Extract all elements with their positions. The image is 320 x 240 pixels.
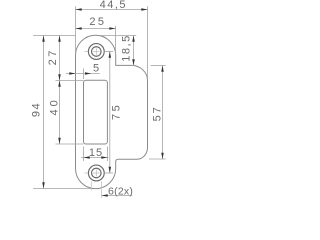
bottom hole centerline dash left <box>84 172 88 174</box>
svg-text:75: 75 <box>110 103 122 120</box>
centerlines <box>84 48 99 176</box>
bottom hole cross vertical <box>95 170 97 177</box>
ext line right of 25 <box>115 26 117 55</box>
arrows 75 <box>109 52 112 58</box>
dim line 27 and 40 shared <box>59 36 61 145</box>
bottom hole cross horizontal <box>93 172 100 174</box>
svg-text:40: 40 <box>49 97 61 115</box>
arrows 94 <box>42 36 45 42</box>
svg-text:94: 94 <box>30 102 42 117</box>
arrows 15 <box>84 156 90 159</box>
dim line 57 <box>162 66 164 160</box>
arrows 40 <box>58 81 61 87</box>
ext line 57 bottom <box>149 158 166 160</box>
top hole centerline dash left <box>84 51 88 53</box>
arrows 27 <box>58 36 61 42</box>
top hole countersink <box>88 44 104 60</box>
dim line 15 <box>81 157 109 159</box>
dim line 5 with tails <box>66 73 100 75</box>
leader 6(2x) underline <box>102 195 133 197</box>
dim line 18,5 <box>133 36 135 66</box>
plate outline <box>76 35 148 188</box>
ext line 18,5 bottom (step extended) <box>131 65 136 67</box>
svg-text:25: 25 <box>89 16 106 28</box>
bottom hole <box>92 168 102 178</box>
svg-text:5: 5 <box>93 62 99 74</box>
dim line 25 <box>76 28 116 30</box>
ext line top-left <box>33 35 76 37</box>
ext line hole left edge for 6(2x) <box>90 182 92 191</box>
ext stub 75 bottom <box>104 172 113 174</box>
ext line 15 left <box>83 147 85 162</box>
arrows 57 <box>161 66 164 72</box>
arrows 5 outside <box>69 72 75 75</box>
dim line 75 <box>109 52 111 174</box>
ext line 15 right <box>107 147 109 162</box>
dimension lines and extension lines <box>33 6 166 195</box>
ext line bottom-left <box>33 188 91 190</box>
dim line 94 <box>43 36 45 189</box>
ext line left of 44,5 and 25 <box>75 6 77 54</box>
arrows 18,5 <box>132 36 135 42</box>
ext line opening bottom extended left <box>56 143 84 145</box>
svg-text:27: 27 <box>47 48 59 65</box>
svg-text:15: 15 <box>89 147 103 159</box>
dim line 44,5 <box>76 9 148 11</box>
svg-text:6(2x): 6(2x) <box>108 186 133 198</box>
latch opening <box>84 80 108 144</box>
ext line hole right edge for 6(2x) <box>101 182 103 199</box>
top hole cross vertical <box>95 48 97 55</box>
ext line right of 44,5 joining lip edge <box>147 6 149 80</box>
svg-text:44,5: 44,5 <box>100 0 127 11</box>
top hole cross horizontal <box>93 51 100 53</box>
ext stub 75 top <box>104 51 113 53</box>
ext line 57 top <box>151 65 166 67</box>
dimension texts <box>30 0 163 198</box>
arrows 25 <box>76 27 82 30</box>
svg-text:57: 57 <box>151 105 163 121</box>
svg-text:18,5: 18,5 <box>120 34 132 61</box>
ext line 5 right (opening edge up) <box>83 69 85 80</box>
arrow 6(2x) leader <box>102 194 108 197</box>
arrowheads <box>42 8 164 197</box>
bottom hole countersink <box>88 165 104 181</box>
arrows 44,5 <box>76 8 82 11</box>
ext line opening top extended left <box>56 80 84 82</box>
top hole <box>92 47 102 57</box>
ext line 18,5 top <box>99 35 136 37</box>
